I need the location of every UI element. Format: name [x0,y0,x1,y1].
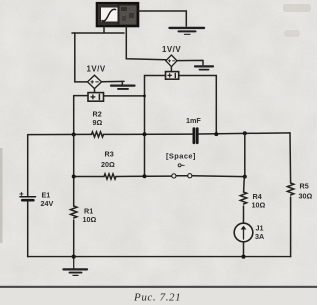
svg-text:R5: R5 [300,182,309,191]
wire scope terminal A stub [103,26,105,33]
node dot (Ea box right tee) [143,95,146,98]
svg-text:9Ω: 9Ω [93,118,103,127]
svg-text:1V/V: 1V/V [87,65,106,74]
node line (top bus) [28,133,92,135]
bottom-left corner smudge [0,296,11,305]
svg-text:1mF: 1mF [186,116,201,125]
svg-text:1V/V: 1V/V [162,45,181,54]
top-right faint smudges [283,4,311,12]
oscilloscope XSC1 [97,3,138,26]
wire Ea box right terminal to vertical [104,95,145,97]
resistor R5 [287,183,293,195]
controlled source Ea 1V/V (left VCVS) [88,75,104,101]
left edge scan streak [0,148,3,243]
node A dot (R1 branch top) [72,133,76,137]
resistor R1 [70,206,76,218]
R4 branch vertical [244,133,245,192]
wire R2 to capacitor [104,133,193,135]
ground (Ea) [111,86,135,89]
R1 branch vertical [73,135,75,207]
svg-text:Рис. 7.21: Рис. 7.21 [133,292,181,304]
resistor R3 [104,174,116,179]
figure frame line [0,286,317,288]
controlled source Eb 1V/V (right VCVS) [166,55,179,79]
battery E1 24V [20,192,36,200]
capacitor C1 1mF [194,129,197,143]
wire scope bottom horizontal [72,32,124,34]
ground (bottom) [64,257,88,276]
svg-text:R3: R3 [105,150,114,159]
resistor R2 [92,132,104,137]
node dot (R3 row left) [72,175,76,179]
wire R3 to switch [116,175,172,177]
wire scope right to ground [138,11,186,26]
wire left drop to source Ea [75,33,88,82]
ground (scope) [170,28,205,34]
wire capacitor to right corner [199,133,290,134]
svg-text:10Ω: 10Ω [252,201,266,210]
bottom rail [28,256,291,258]
svg-text:10Ω: 10Ω [83,215,97,224]
R5 branch vertical [289,133,292,183]
node dot (bottom J1) [241,255,245,259]
left rail with battery E1 [27,135,29,196]
node dot (Eb right wire) [214,132,218,136]
svg-text:[Space]: [Space] [166,152,196,161]
wire Eb box left terminal down to node and R3 row [145,76,166,177]
svg-text:3A: 3A [255,232,264,241]
node dot (R4 branch top) [243,131,247,135]
wire Eb box right terminal down to node line [179,76,217,135]
wire Eb right vertex to ground [177,60,203,64]
wire switch to R4 branch [192,175,245,178]
node dot (R3 row mid) [143,174,147,178]
switch S1 [Space] [172,164,192,178]
wire Ea right vertex to ground [102,81,125,84]
node dot (bottom R1) [72,255,76,259]
resistor R4 [240,192,246,204]
node dot (R3 row right) [243,175,247,179]
current source J1 3A [234,223,253,242]
R3 row [74,176,104,178]
svg-text:24V: 24V [41,199,54,208]
node dot (control vertical) [143,132,147,136]
wire Ea box left terminal down to node line [74,96,88,135]
svg-text:30Ω: 30Ω [299,192,313,201]
ground (Eb) [195,66,213,69]
wire scope terminal B drop [126,26,166,60]
svg-text:20Ω: 20Ω [101,160,115,169]
